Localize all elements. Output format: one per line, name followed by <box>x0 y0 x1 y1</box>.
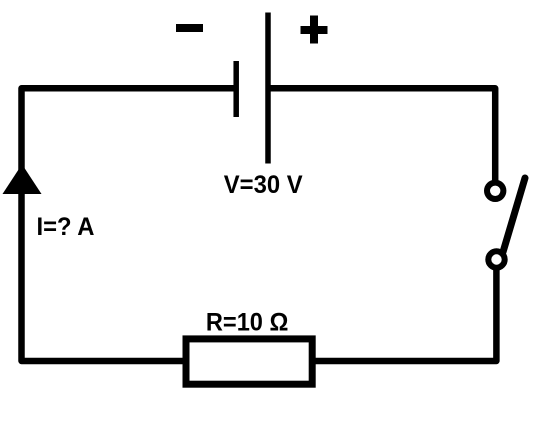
svg-text:R=10 Ω: R=10 Ω <box>206 309 289 337</box>
wire top-right segment from battery positive plate to right rail <box>268 88 495 181</box>
switch S1 bottom terminal <box>488 251 504 267</box>
switch S1 top terminal <box>487 183 503 199</box>
battery B1 positive plate (long) <box>265 13 271 164</box>
battery positive polarity mark <box>301 16 328 44</box>
wire left rail and top-left segment to battery negative plate <box>22 88 237 361</box>
svg-text:V=30 V: V=30 V <box>224 171 303 199</box>
battery negative polarity mark <box>176 24 203 32</box>
battery B1 negative plate (short) <box>233 61 239 117</box>
svg-text:I=? A: I=? A <box>37 213 95 241</box>
resistor R1 body <box>186 339 312 384</box>
switch S1 blade (open) <box>503 178 525 252</box>
current direction arrow <box>3 164 42 194</box>
wire bottom-right segment from switch to resistor <box>313 268 496 361</box>
